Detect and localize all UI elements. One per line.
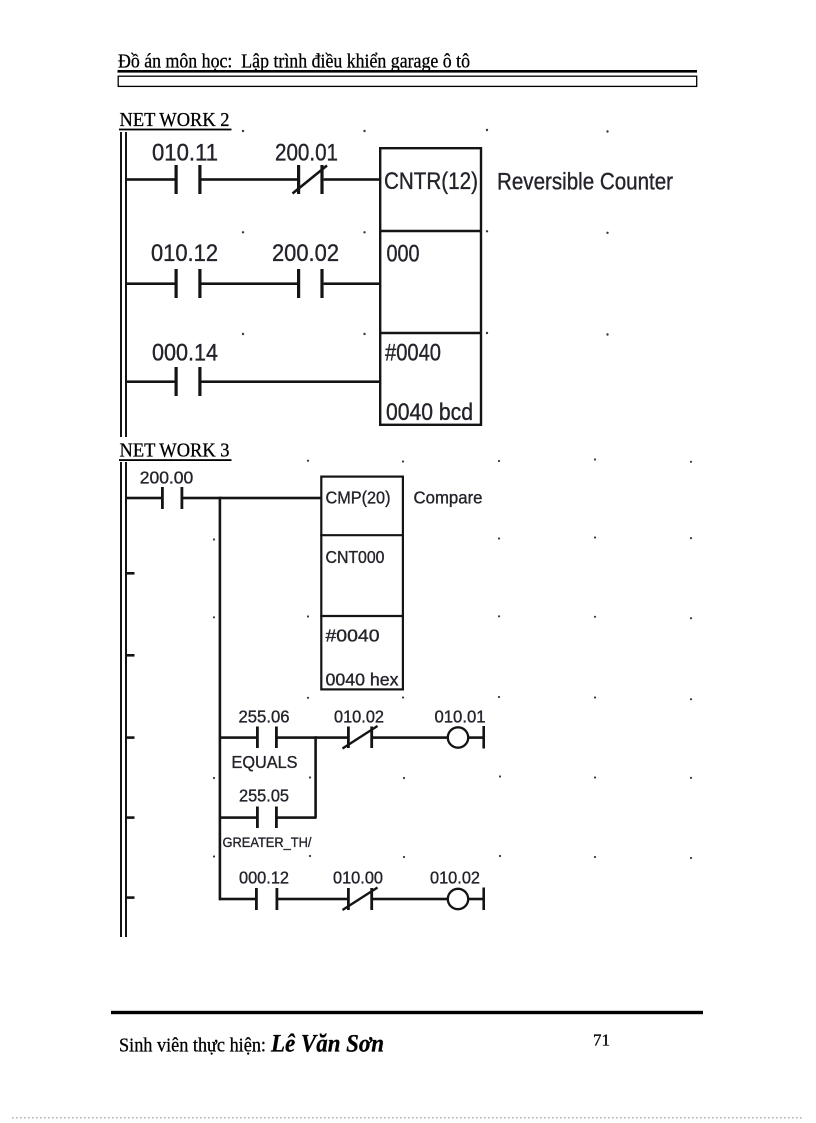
- NC contact 010.00: [347, 888, 373, 910]
- parallel branch vertical: [314, 736, 317, 818]
- wire rowC seg2: [278, 898, 347, 901]
- svg-text:010.02: 010.02: [334, 707, 384, 727]
- NET WORK 2 heading underline: [119, 129, 232, 131]
- branch vertical line: [219, 497, 222, 901]
- wire rung1 mid: [202, 178, 298, 181]
- NC contact 200.01: [297, 165, 324, 194]
- svg-text:200.02: 200.02: [272, 240, 339, 267]
- NET WORK 3 heading underline: [119, 459, 232, 461]
- wire rowA seg3: [316, 736, 348, 739]
- NC slash 200.01: [293, 166, 328, 194]
- svg-text:0040 hex: 0040 hex: [326, 670, 399, 690]
- wire rung2 mid: [202, 282, 298, 285]
- contact 200.02: [297, 269, 324, 298]
- wire rowC seg3: [373, 898, 448, 901]
- svg-text:Đồ án môn học: Lập trình điều: Đồ án môn học: Lập trình điều khiển gara…: [118, 51, 470, 73]
- svg-text:010.11: 010.11: [152, 140, 218, 167]
- svg-text:000.12: 000.12: [239, 868, 289, 888]
- network2 left power rail (double line): [121, 132, 126, 437]
- contact 255.05: [256, 807, 278, 829]
- svg-text:Reversible Counter: Reversible Counter: [497, 169, 673, 196]
- wire rowA seg2: [278, 736, 317, 739]
- svg-text:Lê Văn Sơn: Lê Văn Sơn: [270, 1031, 384, 1058]
- footer thick rule: [111, 1011, 703, 1014]
- svg-text:CNTR(12): CNTR(12): [384, 168, 478, 195]
- svg-text:0040 bcd: 0040 bcd: [386, 399, 473, 426]
- network2 grid dots: [242, 129, 609, 336]
- wire rung2 left: [127, 282, 175, 285]
- svg-text:#0040: #0040: [385, 340, 441, 367]
- svg-text:#0040: #0040: [326, 626, 380, 646]
- bottom dotted separator: [12, 1117, 803, 1119]
- wire rowA seg4: [373, 736, 448, 739]
- wire rowC seg1: [219, 898, 256, 901]
- network3 grid dots: [213, 458, 692, 859]
- svg-text:255.05: 255.05: [239, 786, 289, 806]
- svg-text:71: 71: [593, 1031, 610, 1050]
- svg-text:CNT000: CNT000: [326, 547, 385, 567]
- svg-text:EQUALS: EQUALS: [232, 752, 298, 772]
- instruction box CMP(20): [320, 477, 404, 690]
- wire rowA seg5: [468, 736, 483, 739]
- wire rowC seg4: [468, 898, 483, 901]
- wire rung2 right: [324, 282, 380, 285]
- svg-text:010.02: 010.02: [430, 868, 480, 888]
- instruction box CNTR(12): [379, 148, 482, 425]
- wire rung1 left: [127, 178, 175, 181]
- contact 000.12: [255, 888, 278, 910]
- NC slash rowA: [343, 726, 378, 749]
- svg-text:000: 000: [387, 241, 420, 268]
- svg-text:200.01: 200.01: [275, 140, 338, 167]
- contact 000.14: [175, 367, 202, 396]
- contact 010.12: [175, 269, 202, 298]
- output coil 010.01: [448, 727, 468, 747]
- output coil 010.02: [448, 889, 468, 909]
- rail row stubs: [127, 572, 135, 899]
- wire n3 rung1 left: [127, 497, 162, 500]
- right end bar rowA: [482, 726, 485, 749]
- svg-text:010.01: 010.01: [435, 707, 486, 727]
- svg-text:010.12: 010.12: [151, 240, 218, 267]
- wire rung1 right: [324, 178, 380, 181]
- svg-text:000.14: 000.14: [152, 340, 218, 367]
- svg-text:NET WORK 2: NET WORK 2: [120, 109, 230, 131]
- wire rowB seg2: [278, 816, 317, 819]
- header double-line box: [118, 76, 697, 86]
- svg-text:200.00: 200.00: [140, 468, 194, 488]
- contact 010.11: [175, 165, 202, 194]
- header underline rule: [118, 70, 698, 73]
- svg-text:CMP(20): CMP(20): [326, 488, 391, 508]
- wire n3 rung1 right to CMP box: [183, 497, 321, 500]
- contact 255.06: [256, 727, 278, 749]
- network3 left power rail (double line): [121, 462, 126, 937]
- wire rung3 left: [127, 380, 175, 383]
- svg-text:255.06: 255.06: [239, 707, 290, 727]
- contact 200.00: [161, 487, 183, 509]
- NC slash rowC: [343, 888, 378, 911]
- wire rung3 right: [202, 380, 381, 383]
- NC contact 010.02: [347, 727, 373, 749]
- svg-text:Compare: Compare: [414, 488, 483, 508]
- svg-text:NET WORK 3: NET WORK 3: [120, 440, 230, 462]
- svg-text:Sinh viên thực hiện:: Sinh viên thực hiện:: [119, 1035, 266, 1057]
- wire rowA seg1: [219, 736, 257, 739]
- wire rowB seg1: [219, 816, 257, 819]
- svg-text:010.00: 010.00: [333, 868, 383, 888]
- svg-text:GREATER_TH/: GREATER_TH/: [223, 834, 312, 850]
- right end bar rowC: [482, 888, 485, 911]
